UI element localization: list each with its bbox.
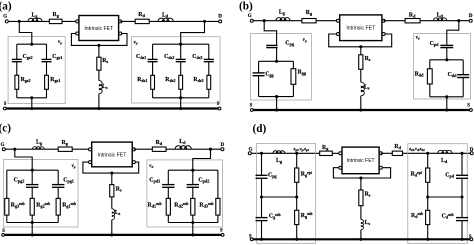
terminal S left (c): [2, 234, 5, 237]
wire branch Cd3 top (a): [208, 44, 210, 59]
svg-text:S: S: [2, 229, 5, 234]
wire branch Cpg top (d): [261, 153, 263, 175]
wire drain bus to rail (c): [192, 223, 194, 235]
resistor Rd (c): [152, 147, 166, 151]
svg-text:Cpd: Cpd: [430, 41, 440, 47]
label Lg (c): [36, 140, 43, 146]
node drain junction (c): [209, 148, 212, 151]
pin source terminal left of FET (c): [89, 161, 92, 164]
svg-text:vg: vg: [58, 40, 62, 45]
wire Rs to Ls (d): [360, 206, 362, 220]
wire Rgepi to mid node (d): [296, 182, 298, 197]
resistor Rs (d): [359, 190, 363, 206]
node Cgsub on rail (d): [260, 238, 263, 241]
label D (b): [469, 14, 473, 19]
svg-text:Rgg: Rgg: [298, 69, 307, 75]
wire drain feed into box (a): [181, 21, 205, 44]
wire Cpg to loop (b): [276, 48, 278, 62]
capacitor Cdd (b): [457, 74, 469, 76]
capacitor Cgs2 (a): [12, 58, 22, 60]
terminal S right (b): [470, 109, 473, 112]
label Cgs2 (a): [23, 54, 33, 60]
resistor Rd (a): [135, 19, 149, 23]
node bottom bus junction (a): [30, 96, 33, 99]
label vd (b): [416, 36, 420, 41]
wire bracket to Rs (d): [360, 178, 362, 190]
svg-text:S: S: [249, 235, 252, 240]
dashed box drain network (b): [414, 34, 471, 99]
svg-text:(a): (a): [0, 0, 12, 12]
wire Ls to source rail (a): [98, 94, 100, 109]
dashed box drain substrate network (c): [147, 160, 223, 227]
source rail S-S (d): [252, 238, 472, 240]
label Rdsub (d): [411, 212, 423, 219]
wire Cpg2 to Rg2sub (c): [31, 187, 33, 198]
svg-text:Cgs2: Cgs2: [23, 54, 33, 60]
wire drain box top bus (a): [153, 43, 209, 45]
node mid right (d): [295, 195, 298, 198]
wire bracket to Rs (c): [111, 173, 113, 185]
wire Rg2sub to bottom bus (c): [31, 215, 33, 222]
svg-text:G: G: [249, 147, 253, 152]
svg-text:S: S: [220, 229, 223, 234]
label S left (d): [249, 235, 252, 240]
resistor Rds1 (a): [151, 75, 155, 89]
svg-text:G: G: [1, 143, 5, 148]
resistor Rds3 (a): [207, 75, 211, 89]
wire gate feed into box (b): [264, 21, 276, 46]
wire Rgg to bottom (b): [292, 84, 294, 96]
resistor Rgsub (d): [295, 210, 299, 224]
node Rgsub on rail (d): [295, 238, 298, 241]
resistor Rd (b): [405, 19, 420, 23]
wire Cds2 to Rds2 (a): [180, 62, 182, 76]
node gate stem on rail (c): [31, 233, 34, 236]
label Cpd (d): [445, 173, 455, 179]
label vg (c): [72, 164, 76, 169]
wire branch Rg3sub (c): [6, 170, 8, 198]
pin drain terminal of FET (d): [379, 152, 382, 155]
label Rg (b): [306, 10, 313, 16]
op-amp U4 intrinsic FET box (d): [342, 147, 379, 174]
svg-text:D: D: [470, 148, 474, 153]
svg-text:vg: vg: [303, 38, 307, 43]
wire drain feed into box (c): [193, 149, 211, 170]
svg-text:Rd: Rd: [394, 144, 401, 150]
wire gate box top bus (c): [7, 169, 58, 171]
dashed box drain pad-substrate network (d): [408, 144, 468, 244]
svg-text:Ls: Ls: [115, 210, 121, 216]
capacitor Cds2 (a): [176, 58, 186, 60]
node mid left drain (d): [426, 195, 429, 198]
label Ls (c): [115, 210, 121, 216]
wire branch Rgepi top (d): [296, 153, 298, 168]
svg-text:Rds3: Rds3: [193, 77, 203, 83]
wire branch Rdd top (b): [429, 60, 431, 69]
label S left (c): [2, 229, 5, 234]
node drain bottom bus junction (c): [191, 221, 194, 224]
label S left (b): [250, 104, 253, 109]
resistor Rg (b): [302, 19, 316, 23]
svg-text:Intrinsic FET: Intrinsic FET: [98, 152, 128, 158]
label vg (a): [58, 40, 62, 45]
capacitor Cpg1 (c): [52, 184, 64, 186]
inductor Ld (d): [438, 150, 452, 153]
dashed box drain RC network (a): [132, 37, 221, 103]
wire Rgsub top (d): [296, 197, 298, 210]
label Cdd (b): [448, 72, 458, 78]
label G (b): [248, 14, 252, 19]
svg-text:G: G: [248, 14, 252, 19]
wire Cgg to bottom (b): [258, 76, 260, 97]
wire bracket to Rs (a): [98, 45, 100, 57]
label Cpd2 (c): [198, 178, 209, 184]
svg-text:Rd: Rd: [156, 140, 163, 146]
resistor Rg (d): [320, 151, 333, 155]
wire Rdd to bottom (b): [429, 84, 431, 97]
wire Cds1 to Rds1 (a): [152, 62, 154, 76]
label Ld (b): [437, 12, 444, 18]
node drain top bus junction (a): [179, 43, 182, 46]
svg-text:Lg: Lg: [36, 140, 43, 146]
wire Cgs2 to Rgs2 (a): [16, 62, 18, 76]
node drain bottom bus junction (a): [179, 96, 182, 99]
svg-text:(b): (b): [239, 0, 253, 12]
node drain loop bottom junction (b): [445, 95, 448, 98]
inductor Lg (a): [28, 18, 42, 21]
svg-text:vg: vg: [72, 164, 76, 169]
panel label (c): [0, 123, 11, 135]
terminal S left (b): [250, 109, 253, 112]
wire Rds2 to bottom bus (a): [180, 89, 182, 98]
svg-text:Ld: Ld: [179, 139, 186, 145]
inductor Lg (c): [32, 147, 44, 150]
label Cds2 (a): [164, 54, 174, 60]
wire bottom bus to rail (a): [31, 98, 33, 109]
svg-text:D: D: [469, 14, 473, 19]
label Cgg (b): [265, 71, 274, 77]
capacitor Cpg (b): [266, 44, 277, 46]
resistor Rdsub (d): [426, 210, 430, 224]
source rail S-S (a): [5, 107, 220, 109]
label S right (a): [217, 102, 220, 107]
inductor Ls (a): [99, 81, 102, 94]
wire loop bottom bus (b): [259, 96, 294, 98]
wire Cdd to bottom (b): [462, 78, 464, 97]
node stem on rail (c): [110, 233, 113, 236]
resistor Rgg (b): [291, 69, 296, 85]
svg-text:Cdd: Cdd: [448, 72, 458, 78]
pin source terminal right of FET (c): [132, 161, 135, 164]
wire drain box bottom bus (c): [168, 222, 218, 224]
svg-text:Lg: Lg: [279, 10, 286, 16]
svg-text:Cds1: Cds1: [136, 54, 146, 60]
label Ld (d): [441, 158, 448, 164]
wire source bracket (a): [71, 34, 127, 46]
wire bracket to Rs (b): [360, 47, 362, 55]
label S left (a): [4, 102, 7, 107]
resistor Rs (c): [110, 185, 114, 197]
inductor Ls (b): [361, 82, 365, 96]
label Rdepi (d): [411, 171, 422, 178]
pin gate terminal of FET (d): [339, 152, 342, 155]
wire Cpd2 to Rd2sub (c): [192, 187, 194, 198]
label Rd (d): [394, 144, 401, 150]
label Cpd (b): [430, 41, 440, 47]
label Rd (b): [409, 12, 416, 18]
label Cdsub (d): [442, 213, 454, 220]
terminal S right (c): [221, 234, 224, 237]
node drain loop top junction (b): [445, 58, 448, 61]
pin source terminal left of FET (b): [337, 33, 340, 36]
panel label (a): [0, 0, 12, 12]
wire Cgsub to rail (d): [261, 221, 263, 240]
svg-text:Cpd: Cpd: [445, 173, 455, 179]
svg-text:Rg: Rg: [306, 10, 313, 16]
dashed box gate RC network (a): [8, 37, 65, 104]
resistor Rs (a): [97, 57, 101, 70]
svg-text:Cds2: Cds2: [164, 54, 174, 60]
label Lg (d): [276, 158, 283, 164]
capacitor Cpg2 (c): [26, 184, 38, 186]
label Cpg (b): [285, 41, 295, 47]
svg-text:Rd: Rd: [409, 12, 416, 18]
wire Ls to rail (b): [360, 96, 362, 110]
label Rg3sub (c): [11, 202, 25, 209]
wire gate box bottom bus (a): [17, 97, 47, 99]
pin gate terminal of FET (b): [337, 19, 340, 22]
svg-text:Ld: Ld: [162, 13, 169, 19]
svg-text:Cpd2: Cpd2: [198, 178, 209, 184]
wire branch Cd1 top (a): [152, 44, 154, 59]
terminal S right (a): [218, 107, 221, 110]
svg-text:Rds1: Rds1: [137, 77, 147, 83]
wire branch Cpg2 top (c): [31, 170, 33, 184]
node gate junction (b): [263, 19, 266, 22]
pin drain terminal of FET (a): [119, 20, 122, 23]
svg-text:Rds2: Rds2: [165, 77, 175, 83]
svg-text:vd: vd: [149, 164, 153, 169]
wire Rd1sub to bottom bus (c): [167, 215, 169, 222]
node mid right drain (d): [460, 195, 463, 198]
wire Rgs2 to bottom bus (a): [16, 89, 18, 98]
svg-text:Rgs2: Rgs2: [21, 77, 31, 83]
svg-text:vd: vd: [416, 36, 420, 41]
pin gate terminal of FET (a): [76, 20, 79, 23]
terminal G (c): [2, 148, 5, 151]
svg-text:Rg: Rg: [62, 140, 69, 146]
node loop top junction (b): [275, 60, 278, 63]
wire Cgs1 to Rgs1 (a): [46, 62, 48, 76]
wire branch Rgg top (b): [292, 61, 294, 68]
resistor Rds2 (a): [179, 75, 183, 89]
wire Ls to rail (c): [111, 220, 113, 235]
resistor Rs (b): [359, 55, 363, 70]
wire Rdsub top (d): [427, 197, 429, 210]
label S right (d): [469, 235, 472, 240]
svg-text:G: G: [3, 14, 7, 19]
resistor Rg (a): [49, 19, 62, 23]
wire Rs to Ls (a): [98, 70, 100, 80]
node gate junction (c): [13, 148, 16, 151]
resistor Rdd (b): [427, 69, 432, 84]
svg-text:Lg: Lg: [32, 13, 39, 19]
inductor Ls (c): [112, 209, 115, 220]
wire Rg1sub to bottom bus (c): [57, 215, 59, 222]
label Rd2sub (c): [174, 202, 188, 209]
wire Cds3 to Rds3 (a): [208, 62, 210, 76]
node stem on rail (a): [97, 107, 100, 110]
svg-text:D: D: [218, 14, 222, 19]
label Rg1sub (c): [62, 202, 76, 209]
svg-text:Rd: Rd: [138, 12, 145, 18]
label Ld (a): [162, 13, 169, 19]
wire branch Cd2 top (a): [180, 44, 182, 59]
node gate stem on rail (a): [30, 107, 33, 110]
pin drain terminal of FET (c): [132, 148, 135, 151]
svg-text:Cgs1: Cgs1: [52, 54, 62, 60]
source rail S-S (b): [252, 109, 471, 111]
svg-text:(c): (c): [0, 123, 11, 135]
resistor Rd3sub (c): [216, 198, 220, 215]
label Rds1 (a): [137, 77, 147, 83]
panel label (d): [253, 123, 267, 135]
label Cpg1 (c): [63, 178, 74, 184]
wire Ls to rail (d): [360, 230, 362, 240]
node Rdsub on rail (d): [426, 238, 429, 241]
label Cgsub (d): [269, 213, 281, 220]
wire mid connector drain (d): [428, 196, 462, 198]
wire branch Cdd top (b): [462, 60, 464, 75]
resistor Rd (d): [392, 151, 402, 155]
node stem on rail (d): [359, 238, 362, 241]
wire gate G to FET (c): [4, 148, 89, 150]
wire Cpd to loop (b): [446, 48, 448, 60]
terminal G (d): [248, 152, 251, 155]
node Cpg junction (d): [260, 152, 263, 155]
source rail S-S (c): [3, 234, 223, 236]
wire gate G to FET (d): [250, 152, 341, 154]
terminal S right (d): [470, 238, 473, 241]
svg-text:S: S: [217, 102, 220, 107]
svg-text:Intrinsic FET: Intrinsic FET: [347, 158, 375, 164]
node drain stem on rail (a): [179, 107, 182, 110]
wire branch Cpd1 top (c): [167, 170, 169, 184]
svg-text:Cgg: Cgg: [265, 71, 274, 77]
wire gate G to FET (a): [7, 20, 77, 22]
inductor Ld (c): [175, 146, 191, 149]
svg-text:Ld: Ld: [441, 158, 448, 164]
wire Rds1 to bottom bus (a): [152, 89, 154, 98]
label S right (c): [220, 229, 223, 234]
inductor Ld (a): [158, 18, 173, 21]
wire drain loop top bus (b): [430, 59, 463, 61]
label Lg (a): [32, 13, 39, 19]
svg-text:Rg: Rg: [53, 12, 60, 18]
wire Rds3 to bottom bus (a): [208, 89, 210, 98]
terminal D (d): [470, 152, 473, 155]
wire Rgsub to rail (d): [296, 225, 298, 240]
capacitor Cpd1 (c): [162, 184, 174, 186]
label vg (b): [303, 38, 307, 43]
wire Rg3sub to bottom bus (c): [6, 215, 8, 222]
svg-text:Rs: Rs: [116, 186, 122, 192]
label Rs (a): [102, 58, 108, 64]
node gate junction (a): [18, 20, 21, 23]
svg-text:vd: vd: [134, 40, 138, 45]
terminal D (c): [221, 148, 224, 151]
svg-text:Cpg1: Cpg1: [63, 178, 74, 184]
wire loop to rail (b): [276, 97, 278, 110]
wire source bracket (c): [83, 162, 139, 173]
node loop bottom junction (b): [275, 95, 278, 98]
capacitor Cpd (d): [456, 174, 468, 176]
svg-text:Ls: Ls: [365, 220, 371, 226]
label D (c): [221, 143, 225, 148]
resistor Rdepi (d): [426, 168, 430, 182]
label Cpd1 (c): [149, 178, 160, 184]
label Lg (b): [279, 10, 286, 16]
label Rd (a): [138, 12, 145, 18]
pin gate terminal of FET (c): [89, 148, 92, 151]
svg-text:Ld: Ld: [437, 12, 444, 18]
label zd1 vd zd2 (d): [408, 146, 425, 152]
wire Cgsub top (d): [261, 197, 263, 218]
wire FET to drain D (b): [384, 20, 471, 22]
svg-text:(d): (d): [253, 123, 267, 135]
label Rg (c): [62, 140, 69, 146]
terminal G (a): [5, 20, 8, 23]
terminal S left (d): [250, 238, 253, 241]
label Cds1 (a): [136, 54, 146, 60]
label Rd3sub (c): [199, 202, 213, 209]
label S right (b): [467, 104, 470, 109]
dashed box gate network (b): [250, 34, 311, 100]
pin source terminal left of FET (a): [76, 32, 79, 35]
node source stem junction (a): [97, 44, 100, 47]
label Rg2sub (c): [36, 202, 50, 209]
op-amp U1 intrinsic FET box (a): [79, 16, 119, 41]
node gate top bus junction (c): [31, 169, 34, 172]
label Rdd (b): [415, 71, 425, 77]
node stem on rail (b): [359, 108, 362, 111]
label Rgepi (d): [301, 171, 312, 178]
node drain stem on rail (b): [445, 108, 448, 111]
node source stem junction (d): [359, 176, 362, 179]
node Cdsub on rail (d): [460, 238, 463, 241]
wire FET to drain D (a): [120, 20, 220, 22]
svg-text:S: S: [4, 102, 7, 107]
wire branch Cpg1 top (c): [57, 170, 59, 184]
svg-text:Ls: Ls: [102, 84, 108, 90]
wire branch Rdepi top (d): [427, 153, 429, 168]
wire Rd3sub to bottom bus (c): [217, 215, 219, 222]
wire FET to drain D (c): [134, 148, 223, 150]
node Rdepi junction (d): [426, 152, 429, 155]
wire Cpd to mid node (d): [461, 178, 463, 197]
capacitor Cdsub (d): [456, 217, 468, 219]
node gate bottom bus junction (c): [31, 221, 34, 224]
wire Rs to Ls (b): [360, 69, 362, 82]
svg-text:Rdd: Rdd: [415, 71, 425, 77]
label Rds3 (a): [193, 77, 203, 83]
capacitor Cpd (b): [440, 44, 453, 46]
capacitor Cgg (b): [253, 72, 265, 74]
wire loop top bus (b): [259, 60, 294, 62]
wire Cpg to mid node (d): [261, 178, 263, 197]
label G (a): [3, 14, 7, 19]
resistor Rd1sub (c): [166, 198, 170, 215]
